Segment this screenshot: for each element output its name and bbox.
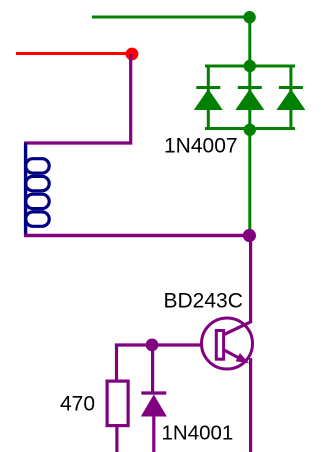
wire: purple horizontal to coil top xyxy=(24,141,132,144)
diode D4 1N4001 xyxy=(141,393,167,417)
wire: base wire from transistor to left xyxy=(115,343,202,346)
resistor R1 470 xyxy=(107,381,128,426)
wire: purple drop from red junction xyxy=(129,54,132,142)
node: green junction on top rail xyxy=(243,11,255,23)
wire: red input wire top left xyxy=(16,52,131,55)
diode D2 (1N4007, middle of parallel trio) xyxy=(235,66,264,129)
wire: diode bottom lead xyxy=(152,417,155,452)
diode D1 (1N4007, left of parallel trio) xyxy=(194,66,223,129)
wire: green drop from diode array to purple junction xyxy=(248,130,251,230)
node: purple junction where green meets rail xyxy=(243,229,256,242)
node: junction on diode array bottom bar xyxy=(244,124,256,136)
node: junction on diode array top bar xyxy=(244,60,256,72)
wire: purple drop from base junction to diode xyxy=(151,345,154,392)
wire: purple bottom rail from coil to junction xyxy=(24,234,249,237)
diode D3 (1N4007, right of parallel trio) xyxy=(276,66,305,129)
wire: green drop from top rail to diode array xyxy=(248,17,251,66)
svg-text:1N4007: 1N4007 xyxy=(164,135,238,158)
wire: top green supply rail xyxy=(92,16,250,19)
svg-text:BD243C: BD243C xyxy=(164,290,243,313)
node: red junction dot xyxy=(126,48,139,61)
wire: purple collector wire down to transistor xyxy=(249,236,252,324)
node: purple junction on base wire xyxy=(146,339,159,352)
wire: diode array top bus bar xyxy=(205,65,295,68)
svg-text:1N4001: 1N4001 xyxy=(162,422,234,445)
wire: diode array bottom bus bar xyxy=(205,127,295,130)
transistor Q1 BD243C xyxy=(202,318,253,369)
wire: resistor bottom lead xyxy=(115,427,118,452)
wire: purple emitter wire to bottom edge xyxy=(249,358,252,452)
inductor L1 (coil) xyxy=(26,143,50,236)
wire: purple drop to resistor xyxy=(115,345,118,380)
svg-text:470: 470 xyxy=(60,393,95,416)
